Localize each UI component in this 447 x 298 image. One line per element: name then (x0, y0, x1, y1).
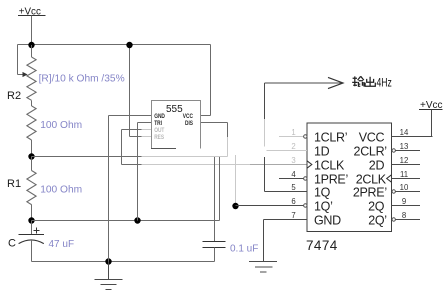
svg-text:7474: 7474 (306, 238, 338, 253)
svg-text:1Q: 1Q (314, 186, 331, 200)
svg-text:R2: R2 (7, 90, 21, 102)
svg-text:2PRE’: 2PRE’ (353, 186, 387, 200)
svg-text:2: 2 (291, 142, 295, 151)
svg-text:OUT: OUT (154, 128, 165, 135)
svg-text:2CLR’: 2CLR’ (354, 145, 387, 159)
svg-text:4Hz: 4Hz (377, 77, 392, 89)
svg-text:8: 8 (402, 211, 406, 220)
svg-text:2Q: 2Q (368, 200, 385, 214)
svg-text:TRI: TRI (154, 121, 162, 128)
svg-text:100 Ohm: 100 Ohm (40, 185, 82, 196)
svg-text:4: 4 (291, 170, 296, 179)
svg-text:2CLK: 2CLK (356, 173, 387, 187)
svg-text:1CLK: 1CLK (314, 159, 345, 173)
svg-text:47 uF: 47 uF (49, 239, 75, 250)
svg-text:VCC: VCC (183, 114, 193, 121)
svg-text:14: 14 (400, 128, 409, 137)
svg-text:11: 11 (400, 170, 408, 179)
svg-text:1CLR’: 1CLR’ (314, 131, 347, 145)
svg-text:10: 10 (400, 183, 409, 192)
svg-text:6: 6 (291, 197, 295, 206)
svg-text:1D: 1D (314, 145, 330, 159)
svg-text:1: 1 (291, 128, 295, 137)
svg-text:R1: R1 (7, 178, 21, 190)
svg-text:7: 7 (291, 211, 295, 220)
svg-text:DIS: DIS (185, 121, 193, 128)
svg-text:VCC: VCC (359, 131, 385, 145)
svg-text:2D: 2D (369, 159, 385, 173)
svg-text:3: 3 (291, 156, 295, 165)
svg-text:RES: RES (154, 135, 164, 142)
svg-text:9: 9 (402, 197, 406, 206)
svg-text:1PRE’: 1PRE’ (314, 173, 348, 187)
svg-text:12: 12 (400, 156, 409, 165)
svg-text:100 Ohm: 100 Ohm (40, 120, 82, 131)
svg-text:[R]/10 k Ohm /35%: [R]/10 k Ohm /35% (39, 73, 125, 84)
svg-text:1Q’: 1Q’ (314, 200, 333, 214)
svg-text:555: 555 (166, 104, 183, 115)
svg-text:13: 13 (400, 142, 409, 151)
svg-text:0.1 uF: 0.1 uF (230, 243, 258, 254)
svg-text:GND: GND (154, 114, 165, 121)
svg-text:2Q’: 2Q’ (368, 214, 387, 228)
svg-text:5: 5 (291, 183, 296, 192)
svg-text:C: C (8, 238, 16, 250)
svg-text:GND: GND (314, 214, 341, 228)
